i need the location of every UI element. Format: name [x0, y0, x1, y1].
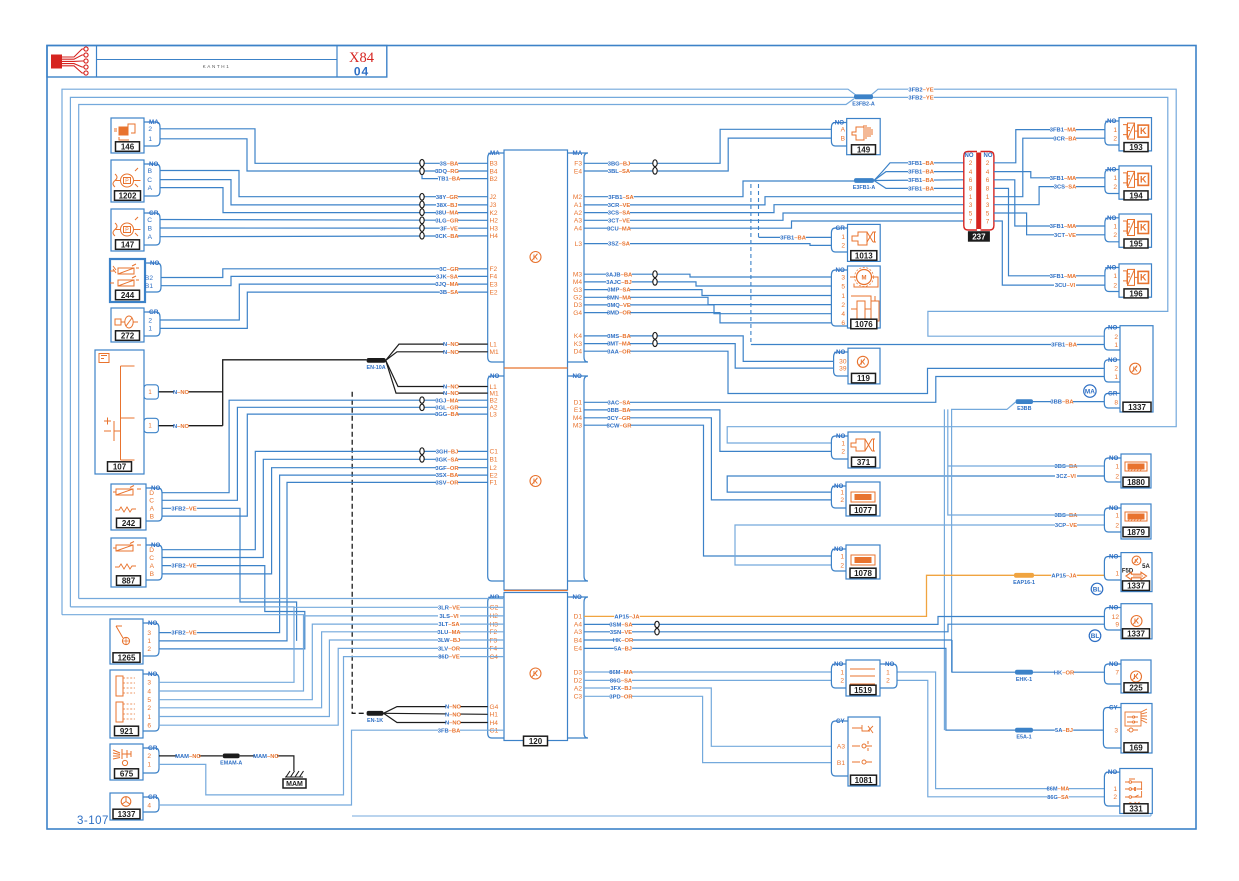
component 371 bracket NO [831, 436, 848, 459]
wire label N-NO M1 [444, 349, 459, 356]
svg-text:194: 194 [1129, 191, 1143, 200]
svg-text:A4: A4 [574, 226, 582, 233]
component 169 icon [1125, 709, 1147, 732]
component 887 heated oxygen sensor downstream [111, 538, 146, 587]
svg-text:3FB1–BA: 3FB1–BA [908, 178, 935, 184]
svg-text:1: 1 [148, 326, 152, 333]
svg-text:3CS–SA: 3CS–SA [1054, 185, 1077, 191]
svg-text:1: 1 [840, 669, 844, 676]
svg-text:-NO: -NO [1107, 554, 1119, 561]
svg-text:N–NO: N–NO [173, 424, 190, 430]
wire 3SX-BA E2 to 1265.3 [159, 475, 488, 632]
svg-text:E3BB: E3BB [1017, 406, 1031, 412]
wire label N-NO L1n [444, 383, 459, 390]
svg-text:G2: G2 [490, 605, 499, 612]
component 1081 clutch switch unit [848, 717, 880, 786]
svg-text:A3: A3 [574, 218, 582, 225]
component 1202 icon [113, 168, 141, 187]
component 1077 bracket NO [831, 486, 846, 508]
svg-text:J2: J2 [490, 194, 497, 201]
ECU box B lower (unit 120) [504, 593, 568, 741]
wire label 3FB2-VE top1 [908, 86, 934, 93]
wire N-NO EN-10A to L1 NO [386, 360, 488, 386]
svg-text:-GR: -GR [147, 309, 159, 316]
wire 3GF-OR L2 to 887.B [162, 468, 488, 574]
svg-text:5A–BJ: 5A–BJ [614, 647, 632, 653]
svg-text:1519: 1519 [854, 686, 872, 695]
svg-text:1: 1 [840, 553, 844, 560]
wire label 3GF-OR [436, 465, 458, 472]
wire 3CU-VI 237.7r to 196.2 [994, 221, 1105, 285]
svg-text:3GF–OR: 3GF–OR [435, 466, 459, 472]
svg-text:2: 2 [147, 753, 151, 760]
svg-text:1337: 1337 [118, 810, 136, 819]
wire label 3BB-BA [608, 407, 630, 414]
svg-text:3CT–VE: 3CT–VE [1054, 233, 1076, 239]
svg-text:N–NO: N–NO [443, 391, 460, 397]
wire label 38X-BJ [436, 202, 458, 209]
svg-text:M1: M1 [490, 349, 499, 356]
svg-text:244: 244 [121, 291, 135, 300]
svg-text:2: 2 [840, 562, 844, 569]
wire 3FB-BA 1337.4 to G1 [159, 730, 504, 805]
wire label 3FX-BJ [610, 685, 632, 692]
wire label 86M 331 [1047, 785, 1068, 792]
svg-text:5: 5 [147, 697, 151, 704]
svg-text:3GK–SA: 3GK–SA [435, 457, 459, 463]
component 1076 icon resistors [851, 296, 879, 324]
svg-text:EMAM-A: EMAM-A [220, 761, 242, 767]
wire bus 3FB2 row1 right of splice to 1880 [727, 89, 1176, 443]
component 272 connector bracket GR [144, 312, 160, 336]
component 194 bracket NO [1105, 170, 1119, 194]
svg-text:1: 1 [1115, 512, 1119, 519]
twisted pair 3GH/3GK [420, 448, 424, 455]
svg-text:F2: F2 [490, 266, 498, 273]
svg-text:3GL–GR: 3GL–GR [435, 405, 459, 411]
svg-text:L1: L1 [490, 341, 498, 348]
wire 3SV-OR F1 to 1265.1 staircase [159, 482, 488, 641]
component 242 label [117, 518, 141, 528]
svg-text:3SX–BA: 3SX–BA [436, 473, 459, 479]
svg-text:L3: L3 [575, 241, 583, 248]
svg-text:G2: G2 [573, 295, 582, 302]
svg-text:2: 2 [841, 243, 845, 250]
wire 3FB1-BA splice to 237.4 [874, 172, 964, 181]
component 675 fuel injector rail sensor [110, 744, 143, 780]
wire label TB1-BA [438, 175, 460, 182]
wire 86M 1519 right pin1 to 331.1 [897, 672, 1104, 789]
svg-text:A: A [150, 563, 155, 570]
wire label 5A-BJ 2 [1055, 727, 1073, 734]
component 193 fuel injector [1119, 118, 1152, 151]
svg-text:-NO: -NO [1107, 455, 1119, 462]
connector 237 left half [964, 152, 977, 231]
component 242 heated oxygen sensor upstream [111, 484, 146, 530]
svg-text:107: 107 [113, 462, 127, 471]
svg-text:2: 2 [841, 449, 845, 456]
svg-text:119: 119 [857, 374, 870, 383]
svg-text:1: 1 [840, 489, 844, 496]
wire label 3AC-SA [608, 399, 630, 406]
component 1077 icon [851, 492, 875, 502]
svg-text:B1: B1 [145, 283, 153, 290]
wire 3BS-BA E3BB to 1880.1 and 1879.1 [948, 409, 1105, 515]
component 196 fuel injector [1119, 264, 1152, 297]
connector 237 centre bar [976, 153, 981, 230]
svg-text:6: 6 [147, 723, 151, 730]
svg-text:2: 2 [969, 160, 973, 167]
wire label 3FB2-VE 887 [171, 562, 197, 569]
wire label 3CK-BA [436, 233, 458, 240]
svg-text:2: 2 [148, 317, 152, 324]
svg-text:3JK–SA: 3JK–SA [436, 275, 459, 281]
svg-text:B4: B4 [574, 637, 582, 644]
wire label 5A-BJ [614, 645, 632, 652]
component 371 label [852, 457, 876, 467]
wire 3FX-BJ A2 to 1081.A3 [584, 688, 831, 746]
wire 3GG-BA L3 to 242.B [162, 414, 488, 516]
wire 3LW-BJ 921.1 to F3 [159, 640, 504, 717]
ECU box A circled K upper [530, 252, 541, 263]
component 193 icon [1123, 123, 1138, 139]
component 1337 main bracket NO 1 [1104, 328, 1120, 351]
svg-text:EN-1K: EN-1K [367, 718, 383, 724]
component 331 icon [1125, 779, 1142, 806]
svg-text:1081: 1081 [855, 776, 873, 785]
svg-text:3C–GR: 3C–GR [439, 267, 459, 273]
wire label 3AJC-BJ [606, 279, 632, 286]
wire label 3FB1-BA 1337 [1051, 341, 1077, 348]
splice EHK-1 [1015, 670, 1033, 675]
svg-text:B: B [150, 513, 155, 520]
wire label 3FB1-SA [608, 194, 634, 201]
component 1519 interface unit [846, 660, 880, 696]
svg-text:3FX–BJ: 3FX–BJ [610, 686, 631, 692]
svg-text:A3: A3 [574, 629, 582, 636]
component 1519 icon lines [850, 668, 875, 670]
svg-text:3CP–VE: 3CP–VE [1055, 523, 1077, 529]
svg-text:H2: H2 [490, 218, 499, 225]
svg-text:2: 2 [1113, 794, 1117, 801]
wire 3LS-VI bus to H2 with drop to 921.4 [62, 615, 504, 616]
splice E3FB2-A [854, 94, 873, 99]
svg-text:3MN–MA: 3MN–MA [607, 295, 632, 301]
svg-text:E3: E3 [490, 281, 498, 288]
wire 3JK-SA 244.B1 to F4 [161, 276, 488, 285]
component 242 icon [113, 486, 141, 513]
twisted pair 3MS/3MT [653, 332, 657, 339]
component 1076 label [851, 319, 877, 329]
svg-text:4: 4 [147, 688, 151, 695]
svg-text:6: 6 [969, 177, 973, 184]
svg-text:D2: D2 [574, 678, 583, 685]
wire 3CP-VE 1879.2 to 1078.2 [735, 525, 1104, 565]
svg-text:C1: C1 [490, 449, 499, 456]
svg-text:NO: NO [965, 153, 974, 159]
component 225 label [1124, 683, 1148, 693]
svg-text:BL: BL [1093, 586, 1102, 593]
wire 3MQ-VE D3 to 1076.4 [584, 305, 831, 314]
svg-text:3FB–BA: 3FB–BA [438, 728, 461, 734]
svg-text:A: A [150, 506, 155, 513]
svg-text:4: 4 [147, 802, 151, 809]
wire label 3AJB-BA [606, 271, 632, 278]
wire 3FB1-BA splice to 237.8 [874, 181, 964, 189]
svg-text:1: 1 [1113, 786, 1117, 793]
splice E3BB [1016, 399, 1033, 404]
svg-text:K: K [1140, 126, 1147, 136]
wire label 3F-VE [440, 225, 458, 232]
wire 3AJC-BJ M4 to 1076.5 [584, 282, 831, 286]
wire 3FB1-MA 237.2r to 193.1 [994, 130, 1105, 163]
wire 3CR-VE A1 to 237.1 [584, 197, 964, 205]
svg-text:3MD–OR: 3MD–OR [607, 311, 632, 317]
svg-text:NO: NO [984, 153, 993, 159]
component 1078 bracket NO [831, 549, 846, 571]
svg-text:147: 147 [121, 240, 135, 249]
svg-text:N–NO: N–NO [445, 712, 462, 718]
component 1879 bracket NO [1104, 508, 1121, 532]
svg-text:3LW–BJ: 3LW–BJ [438, 638, 461, 644]
component 146 label [116, 142, 140, 152]
component 107 terminal 1 upper [144, 385, 158, 399]
svg-text:N–NO: N–NO [445, 721, 462, 727]
svg-text:-NO: -NO [488, 373, 500, 380]
svg-text:237: 237 [972, 232, 986, 241]
wire 3MT-MA K3 to 119.39 [584, 344, 834, 369]
svg-text:3BS–BA: 3BS–BA [1055, 513, 1079, 519]
svg-text:1: 1 [1113, 273, 1117, 280]
tag MA circle [1084, 385, 1096, 397]
component 107 battery [95, 350, 144, 474]
wire label 3C-GR [440, 266, 458, 273]
svg-text:-NO: -NO [1105, 118, 1117, 125]
wire label 3LU-MA [438, 629, 460, 636]
svg-text:C: C [147, 217, 152, 224]
svg-text:G4: G4 [490, 704, 499, 711]
svg-text:K: K [1140, 273, 1147, 283]
wire 3BL-SA E4 to 149.B [584, 138, 831, 171]
wire bus row3 tail to box B [79, 598, 504, 600]
svg-text:3FB2–VE: 3FB2–VE [171, 506, 196, 512]
svg-text:-NO: -NO [833, 120, 845, 127]
ground MAM [285, 771, 304, 777]
svg-text:3GG–BA: 3GG–BA [435, 412, 460, 418]
component 147 label [116, 240, 140, 250]
wire label 3FB1-BA d [908, 185, 934, 192]
wire label N-NO battery2 [174, 423, 189, 430]
wire label 3FB1-BA 1013 [780, 234, 806, 241]
wire 3SN-VE A3 to 1337n.9 [584, 624, 1104, 632]
svg-text:3CS–SA: 3CS–SA [608, 211, 631, 217]
component 1265 brake pedal switch [110, 619, 143, 664]
component 272 icon [115, 316, 138, 328]
svg-text:9: 9 [1115, 622, 1119, 629]
wire 3CW-GR M3 to 1078.1 [584, 425, 831, 556]
wire 86G-SA D2 to 1519 left pin2 [584, 679, 831, 681]
component 1879 heater resistor 2 [1121, 504, 1151, 539]
component 1265 label [113, 653, 140, 663]
svg-text:7: 7 [1115, 670, 1119, 677]
wire 3SM-SA A4 to 1337n.12 [584, 617, 1104, 625]
component 1519 bracket NO left [831, 664, 846, 688]
component 921 label [115, 726, 139, 736]
component 169 label [1124, 743, 1148, 753]
svg-text:3MS–BA: 3MS–BA [607, 334, 631, 340]
title block [47, 46, 387, 78]
wire label 3FB2-VE 242 [171, 505, 197, 512]
svg-text:1: 1 [841, 234, 845, 241]
svg-text:3JQ–MA: 3JQ–MA [435, 282, 459, 288]
component 194 fuel injector [1119, 166, 1152, 199]
component 887 icon [113, 542, 141, 570]
svg-text:3LG–GR: 3LG–GR [435, 218, 459, 224]
wire label 3GH-BJ [436, 448, 458, 455]
wire 3BS-BA label 1879 [1055, 512, 1077, 519]
wire 3MP-SA G3 to 1076.1 [584, 290, 831, 296]
ECU connector box A upper [504, 150, 568, 590]
svg-text:D1: D1 [574, 614, 583, 621]
component 1076 icon motor [857, 270, 872, 285]
svg-text:1879: 1879 [1127, 528, 1145, 537]
wire 3LU-MA 921.2 to F2 [159, 632, 504, 708]
svg-text:MAM: MAM [286, 781, 303, 788]
component 1519 label [850, 685, 876, 695]
wire label 3PD-OR [610, 693, 632, 700]
svg-text:3: 3 [969, 202, 973, 209]
twisted pair 3S/3DQ [420, 159, 424, 166]
svg-text:331: 331 [1129, 804, 1143, 813]
svg-text:2: 2 [840, 497, 844, 504]
component 244 oxygen sensor [110, 259, 145, 302]
component 1337 12-9 bracket NO [1104, 608, 1121, 631]
svg-text:M3: M3 [573, 423, 582, 430]
svg-text:6: 6 [841, 320, 845, 327]
component 1337 fuse box F5D [1121, 553, 1152, 592]
wire bus row3 [79, 99, 854, 599]
svg-text:B4: B4 [490, 168, 498, 175]
component 149 bracket NO [831, 123, 846, 147]
svg-text:3LV–OR: 3LV–OR [438, 647, 461, 653]
svg-text:3AC–SA: 3AC–SA [608, 400, 632, 406]
component 147 connector bracket GR [144, 213, 160, 245]
wire label 3SN-VE [610, 629, 632, 636]
svg-text:3: 3 [841, 274, 845, 281]
wire label N-NO battery1 [174, 389, 189, 396]
svg-text:1: 1 [148, 136, 152, 143]
svg-text:3F–VE: 3F–VE [440, 226, 458, 232]
component 147 icon [113, 217, 141, 236]
svg-text:1: 1 [1114, 374, 1118, 381]
svg-text:6: 6 [986, 177, 990, 184]
wire label 3LS-VI [438, 613, 460, 620]
wire label 3AA-OR [608, 348, 630, 355]
svg-text:-NO: -NO [1105, 215, 1117, 222]
wire 3F-VE 147.B to H3 [160, 227, 488, 229]
svg-text:MA: MA [1085, 389, 1095, 396]
component 1337 main bracket NO 2 [1104, 360, 1120, 382]
svg-text:1202: 1202 [119, 191, 137, 200]
svg-text:E4: E4 [574, 646, 582, 653]
svg-text:A: A [148, 185, 153, 192]
svg-text:E5A-1: E5A-1 [1016, 735, 1031, 741]
svg-text:3CU–VI: 3CU–VI [1055, 283, 1076, 289]
component 244 label [116, 290, 140, 300]
svg-text:B2: B2 [490, 398, 498, 405]
svg-text:1076: 1076 [855, 320, 873, 329]
svg-text:MAM–NO: MAM–NO [175, 754, 201, 760]
svg-text:E1: E1 [574, 407, 582, 414]
svg-text:2: 2 [1113, 184, 1117, 191]
wire 3LV-OR 921.6 to F4 [159, 648, 504, 725]
wire label 3JK-SA [436, 273, 458, 280]
svg-text:G3: G3 [573, 287, 582, 294]
wire 3FB1-BA splice to 237.6 [874, 179, 964, 182]
component 1078 label [850, 568, 876, 578]
wire label 3B-SA [440, 289, 458, 296]
svg-text:3LU–MA: 3LU–MA [437, 630, 461, 636]
svg-text:3SN–VE: 3SN–VE [610, 630, 632, 636]
svg-text:3SM–SA: 3SM–SA [609, 623, 633, 629]
wire 3LG-GR 147.C to H2 [160, 219, 488, 222]
component 1013 icon [852, 232, 876, 245]
component 194 label [1124, 191, 1148, 200]
svg-text:86D–VE: 86D–VE [438, 655, 460, 661]
ECU box A right bracket NO [568, 376, 589, 581]
wire label 3LT-SA [438, 621, 460, 628]
svg-text:B1: B1 [837, 760, 845, 767]
title block connector icon [52, 55, 62, 68]
svg-text:H3: H3 [490, 226, 499, 233]
wire 3PD-OR C3 to 1081.B1 [584, 696, 831, 762]
wire 3CT-VE 237.5r to 195.2 [994, 213, 1105, 235]
svg-text:3CR–VE: 3CR–VE [608, 203, 631, 209]
svg-text:3LT–SA: 3LT–SA [438, 622, 460, 628]
wire 3FB2-VE 887.A branch [159, 566, 305, 649]
ECU box A left bracket MA [488, 153, 504, 362]
wire label 3GJ-MA [436, 397, 458, 404]
component 1077 heated element [846, 482, 880, 516]
component 1078 icon [851, 555, 875, 565]
wire 5A-BJ E4 to 169.3 via E5A-1 [584, 648, 1015, 730]
svg-text:KANTH1: KANTH1 [203, 64, 231, 69]
wire 3BB-BA E1 to 371.2 [584, 410, 831, 452]
svg-text:225: 225 [1129, 683, 1143, 692]
svg-text:E3FB1-A: E3FB1-A [853, 185, 876, 191]
svg-text:4: 4 [841, 311, 845, 318]
svg-text:A2: A2 [574, 685, 582, 692]
component 244 connector bracket NO [145, 263, 161, 292]
svg-text:-NO: -NO [834, 267, 846, 274]
connector 237 right half [981, 152, 994, 231]
svg-text:7: 7 [969, 218, 973, 225]
svg-text:P: P [125, 179, 129, 185]
svg-text:196: 196 [1129, 289, 1143, 298]
component 169 instrument cluster [1121, 704, 1152, 754]
svg-text:B1: B1 [490, 457, 498, 464]
wire label 3CU-MA [608, 225, 630, 232]
wire label 3MQ-VE [608, 302, 630, 309]
svg-text:B: B [148, 168, 153, 175]
svg-text:-NO: -NO [1107, 505, 1119, 512]
wire label 3GL-GR [436, 404, 458, 411]
svg-text:195: 195 [1129, 239, 1143, 248]
component 887 connector bracket NO [146, 545, 162, 580]
svg-text:-NO: -NO [883, 661, 895, 668]
svg-text:J3: J3 [490, 202, 497, 209]
tag BL circle 2 [1089, 630, 1101, 642]
